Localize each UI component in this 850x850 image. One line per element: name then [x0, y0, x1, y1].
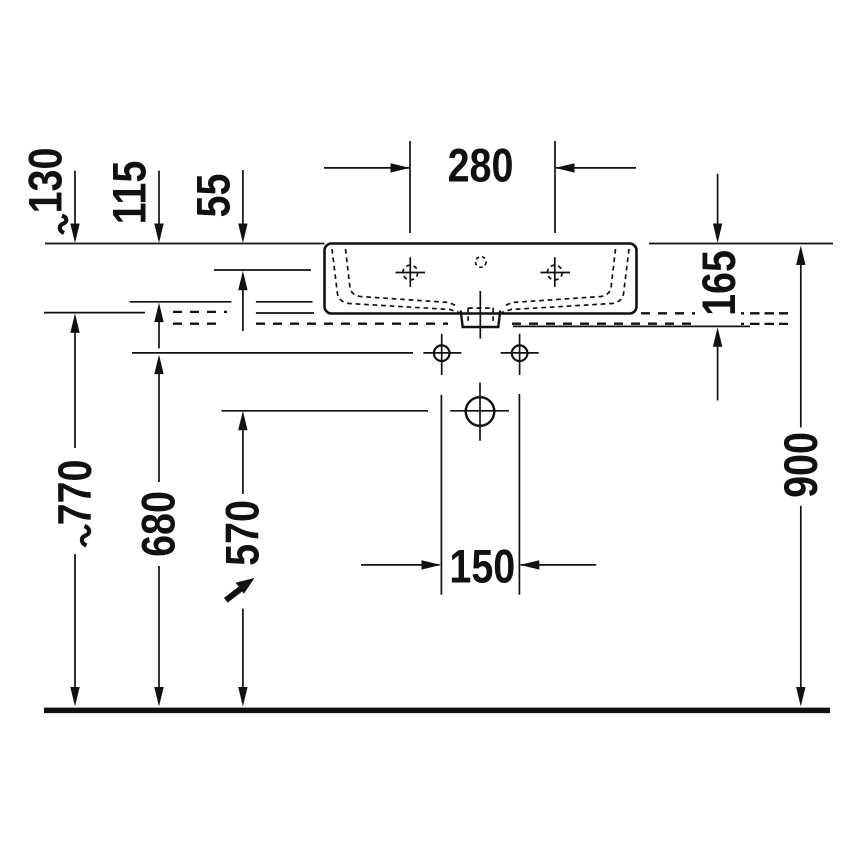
svg-text:130: 130 — [20, 148, 72, 214]
arrowhead 165 up — [713, 327, 722, 347]
dim 770 shaft lower — [74, 554, 76, 689]
dim 115 lower arrow tail — [158, 321, 160, 348]
long dashed line y323 segment c — [512, 323, 694, 325]
mounting hole left cross vertical — [441, 334, 443, 375]
mounting hole left circle — [434, 345, 450, 361]
mounting hole left cross horizontal — [423, 352, 461, 354]
siphon cross horizontal — [450, 410, 509, 412]
drain hidden rect left side — [467, 308, 469, 324]
arrowhead 900 floor down — [796, 687, 805, 707]
svg-text:680: 680 — [133, 491, 185, 557]
arrowhead 55 up — [238, 271, 247, 291]
long dashed line y323 segment b — [256, 323, 448, 325]
dim 680 shaft upper — [158, 373, 160, 482]
faucet hole left dashed circle — [403, 265, 418, 280]
mounting hole right cross vertical — [519, 334, 521, 375]
faucet level line (55 reference) — [214, 269, 311, 271]
770 level line left segment — [44, 312, 145, 314]
long dashed line y323 segment a — [173, 323, 223, 325]
arrowhead 150 right pointing left — [520, 560, 540, 569]
dim 150 left extension line — [440, 395, 442, 595]
siphon outlet circle — [466, 397, 495, 426]
dim 280 right arrow tail — [556, 167, 636, 169]
svg-text:165: 165 — [694, 250, 746, 316]
siphon level line — [222, 410, 429, 412]
mounting hole right cross horizontal — [501, 352, 539, 354]
dim 150 right extension line — [518, 394, 520, 595]
rim level line right — [649, 243, 833, 245]
arrowhead 165 down — [713, 224, 722, 244]
dim 280 right extension line — [554, 141, 556, 233]
basin hidden line left inner wall — [346, 249, 459, 307]
drain hidden rect right side — [492, 308, 494, 324]
washbasin outer body — [325, 244, 637, 314]
115 level line left segment — [130, 301, 232, 303]
svg-text:115: 115 — [104, 161, 156, 225]
dim 55 top line — [242, 170, 244, 224]
dim 165 lower arrow tail — [717, 346, 719, 401]
adjustable height diagonal arrow — [226, 578, 255, 600]
arrowhead 680 floor down — [154, 687, 163, 707]
svg-text:55: 55 — [188, 174, 240, 218]
arrowhead 130-770 shared up — [70, 313, 79, 333]
dim 150 left arrow tail — [361, 564, 439, 566]
drain spigot outline — [461, 311, 501, 328]
drain hidden rect top — [468, 307, 493, 309]
tilde of ~770 — [82, 526, 89, 546]
arrowhead 130 down — [70, 224, 79, 244]
arrowhead 115 down — [154, 224, 163, 244]
tilde of ~130 — [60, 216, 67, 234]
long dashed line y323 segment d with dot — [741, 323, 788, 325]
115 level line right segment — [256, 301, 313, 303]
arrowhead 280 left pointing right — [391, 163, 411, 172]
drain center line upper segment — [479, 291, 481, 339]
arrowhead 115 up — [154, 303, 163, 323]
dim 150 right arrow tail — [521, 564, 597, 566]
dim 570 shaft lower — [242, 609, 244, 689]
mounting hole right circle — [512, 345, 528, 361]
arrowhead 900 up — [796, 246, 805, 266]
arrowhead 570 up — [238, 411, 247, 431]
dash-dot reference line y313 right of sink — [641, 312, 695, 314]
dim 115 top line — [158, 171, 160, 224]
dim 900 shaft lower — [800, 506, 802, 689]
faucet hole right cross horizontal — [540, 272, 570, 274]
svg-text:280: 280 — [448, 140, 514, 192]
dim 570 shaft upper — [242, 429, 244, 494]
svg-text:150: 150 — [449, 541, 515, 593]
overflow hole dashed circle — [476, 257, 487, 268]
siphon cross vertical — [479, 383, 481, 441]
arrowhead 150 left pointing right — [422, 560, 442, 569]
dashed reference line y312 left — [173, 311, 227, 313]
dim 280 left extension line — [409, 141, 411, 233]
svg-text:570: 570 — [217, 500, 269, 566]
165 level line — [513, 325, 750, 327]
dim 680 shaft lower — [158, 566, 160, 689]
dim 165 top line — [717, 174, 719, 224]
svg-text:900: 900 — [776, 432, 828, 498]
dash-dot reference line y313 right end with dot — [741, 312, 788, 314]
basin hidden line right outer wall — [502, 249, 629, 313]
faucet hole right cross vertical — [554, 257, 556, 287]
faucet hole left cross horizontal — [396, 272, 426, 274]
dim 130 top line — [74, 171, 76, 224]
dim 900 shaft upper — [800, 265, 802, 428]
faucet hole right dashed circle — [547, 265, 562, 280]
arrowhead 770 floor down — [70, 687, 79, 707]
floor line — [44, 708, 830, 714]
dim 55 lower arrow tail — [242, 289, 244, 331]
basin hidden line left outer wall — [332, 249, 459, 313]
arrowhead 280 right pointing left — [555, 163, 575, 172]
arrowhead 680 up — [154, 355, 163, 375]
svg-text:770: 770 — [50, 460, 102, 526]
dim 770 shaft upper — [74, 331, 76, 448]
arrowhead 55 down — [238, 224, 247, 244]
770 level line right segment — [256, 312, 314, 314]
rim level line left — [45, 243, 325, 245]
arrowhead 570 floor down — [238, 687, 247, 707]
dim 280 left arrow tail — [324, 167, 410, 169]
basin hidden line right inner wall — [503, 249, 616, 307]
faucet hole left cross vertical — [409, 257, 411, 287]
mounting holes level line — [132, 352, 413, 354]
